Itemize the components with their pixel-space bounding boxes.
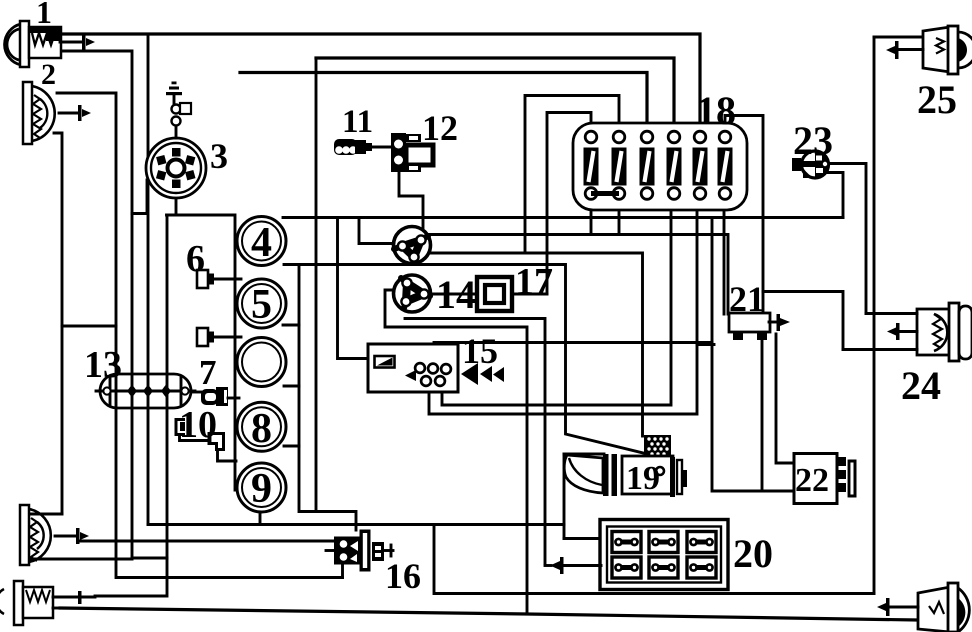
lamp B bottom-left headlamp: [0, 581, 95, 625]
wire: 23 bottom down to H_a end: [828, 173, 843, 218]
link bar fuse1-fuse2 bottoms: [591, 191, 619, 196]
switch 16: [326, 530, 393, 572]
wire: lamp2 top to x116 down: [57, 93, 343, 578]
wire: circles right bus: [299, 265, 356, 531]
wire: fuse1 top loop down to 17 right: [547, 113, 591, 295]
svg-text:3: 3: [210, 136, 228, 176]
wire: lamp2 bottom down to lampA top: [54, 133, 62, 514]
svg-text:1: 1: [36, 0, 52, 30]
wire: 23 right to trunk jog: [828, 164, 866, 314]
wire: H_a drop x712 to relay22 lower: [712, 218, 794, 492]
horn 19: [564, 435, 687, 497]
wire: stub at relay21 left: [697, 343, 714, 346]
wire H_a: circle4 top to 23 bottom: [283, 216, 843, 219]
svg-text:6: 6: [186, 238, 205, 280]
lamp bottom-right: [918, 583, 969, 632]
ground for 20: [545, 557, 601, 574]
wire: long vertical x316: [315, 58, 318, 512]
wire: circle5 right stub: [283, 324, 299, 327]
wire: jog y558 x132 to x167: [132, 557, 167, 560]
svg-text:8: 8: [251, 406, 272, 452]
wire: bottom bus from lampB to bottom right lamp: [60, 608, 916, 620]
fuse box 18: [573, 123, 747, 210]
wire: x167 capsule to lampB: [95, 215, 167, 596]
wires into 24: [866, 312, 917, 315]
fuse holder 13: [96, 374, 195, 408]
wire: relay12 bottom to connector top: [399, 172, 423, 229]
lamp 24: [917, 303, 972, 361]
wire L1: to junction x564: [148, 523, 564, 526]
switch 3 stem and ground: [166, 82, 191, 139]
relay 12: [391, 133, 433, 172]
svg-text:18: 18: [696, 88, 736, 133]
gauge circle 4: [237, 217, 286, 267]
lamp 2: [23, 82, 55, 144]
wire: 15 top to x712: [434, 343, 712, 346]
wire: bottom long line y593 from x435 to trunk: [435, 592, 874, 595]
bulb 7: [191, 387, 239, 406]
wire: L1 drop x434 to bottom line: [433, 525, 436, 594]
ground for lamp 1: [60, 34, 95, 50]
wire: connector 14 right to 17 left: [430, 293, 477, 296]
wire: W_a elbow to x843: [763, 292, 843, 350]
bulb 6: [197, 270, 241, 288]
wire Band1: connector upper right to 19 hatch drop: [430, 253, 643, 436]
svg-text:17: 17: [515, 261, 553, 303]
gauge circle 9: [237, 463, 286, 512]
svg-text:4: 4: [251, 220, 272, 266]
bulb between 6 and 7: [197, 328, 241, 346]
svg-text:24: 24: [901, 363, 941, 408]
wire: circle4 bottom line to diagonal into horn 19: [284, 265, 643, 454]
lamp A bottom-left dome lamp: [20, 505, 51, 565]
svg-text:12: 12: [422, 108, 458, 148]
svg-text:7: 7: [199, 353, 217, 392]
ground for 24: [887, 323, 917, 340]
fuse 11: [334, 139, 392, 155]
wire: lampA bottom to x132: [28, 558, 132, 561]
svg-text:14: 14: [436, 272, 476, 317]
headlamp 1: [5, 21, 61, 67]
svg-text:23: 23: [793, 118, 833, 163]
wire: lampA top stub: [28, 513, 62, 516]
wire: fuse6 bottom drop to relay21: [723, 199, 726, 314]
wire bus B: vertical x316 start to fuse4 top: [316, 58, 674, 126]
gauge circle 8: [237, 402, 286, 452]
svg-text:13: 13: [84, 344, 122, 386]
connector upper (3-hole): [394, 227, 431, 264]
svg-text:22: 22: [795, 462, 829, 499]
wire: relay21 ground bar down to relay22 upper: [776, 334, 794, 463]
ground for 25: [886, 41, 923, 59]
wire: 14 bottom to x545 down to 20 ground: [405, 319, 545, 565]
svg-text:11: 11: [342, 104, 373, 140]
wire: lamp1 lower to x132 down: [60, 51, 132, 559]
wire bus A: lamp1 top to fuse5 top: [60, 34, 700, 126]
wire: circle6 right stub: [284, 385, 299, 388]
svg-text:25: 25: [917, 77, 957, 122]
svg-text:9: 9: [251, 466, 272, 512]
wire: H_a drop to connector upper left: [359, 218, 394, 244]
svg-text:10: 10: [179, 404, 217, 446]
ground for lamp 2: [59, 105, 91, 121]
indicator 17: [477, 277, 512, 311]
lamp-check unit 15: [368, 344, 504, 392]
wire bus C: x240 to fuse3 top: [240, 73, 647, 127]
ground for bottom-right lamp: [877, 598, 918, 616]
wire: lamp25 to trunk: [874, 36, 923, 39]
wire: switch3 left elbow to x132: [132, 180, 147, 214]
lamp 23: [792, 151, 829, 178]
lamp 25: [923, 26, 972, 74]
wire: into 20 upper left: [564, 537, 601, 540]
wire: y577 up into 16 lower terminal: [341, 556, 344, 578]
wire: x564 from horn19 to connector20: [563, 454, 566, 539]
wire: fuse1 bottom drop to H_b: [590, 199, 593, 235]
wire: branch into relay 21 top: [762, 292, 765, 315]
wire H_b: connector upper right to relay21 top: [430, 235, 728, 315]
gauge circle 5: [237, 279, 286, 328]
wire: H_a drop to lamp-check 15 left: [338, 218, 369, 359]
wire: 15 bottom to fuse4 bottom: [442, 199, 671, 405]
switch 3: [146, 138, 206, 198]
svg-text:20: 20: [733, 531, 773, 576]
wire L2: x116 to switch16: [80, 540, 335, 543]
wire: right trunk x873 from lamp25 down to bottom: [873, 37, 876, 594]
wire: fuse2 top loop to Band1: [525, 96, 619, 254]
wire: 17 right to fuse1 drop: [512, 293, 547, 296]
connector block 20: [600, 520, 728, 590]
wire: switch3 bottom to circles left bus: [167, 198, 236, 490]
svg-text:19: 19: [626, 460, 660, 497]
ground for lamp A: [55, 528, 89, 544]
wire: circle8 right stub: [284, 445, 299, 448]
wire: branch x62 to x116: [62, 325, 116, 328]
relay 21: [729, 313, 770, 340]
ground for 21: [769, 314, 790, 331]
wire: fuse2 bottom drop to H_b: [618, 199, 621, 235]
wire: relay21 left foot down to y491: [761, 341, 764, 491]
wire: 14 left loop down: [385, 290, 527, 614]
plug 10: [176, 420, 236, 462]
svg-text:21: 21: [729, 279, 765, 319]
svg-text:16: 16: [385, 556, 421, 596]
svg-text:2: 2: [41, 58, 56, 91]
svg-text:5: 5: [251, 282, 272, 328]
wire: top bus drop x148 through fuse13 to L1: [147, 34, 150, 525]
wire: 15 bottom to fuse5 bottom: [429, 199, 697, 414]
gauge circle unnumbered: [237, 338, 286, 387]
connector 14 (3-hole): [394, 275, 431, 312]
svg-text:15: 15: [462, 331, 498, 371]
relay 22: [794, 454, 855, 504]
wire: fuse6 top to right trunk W_a: [725, 116, 763, 292]
wire: circle9 bottom to 16 lower terminal: [259, 512, 262, 525]
